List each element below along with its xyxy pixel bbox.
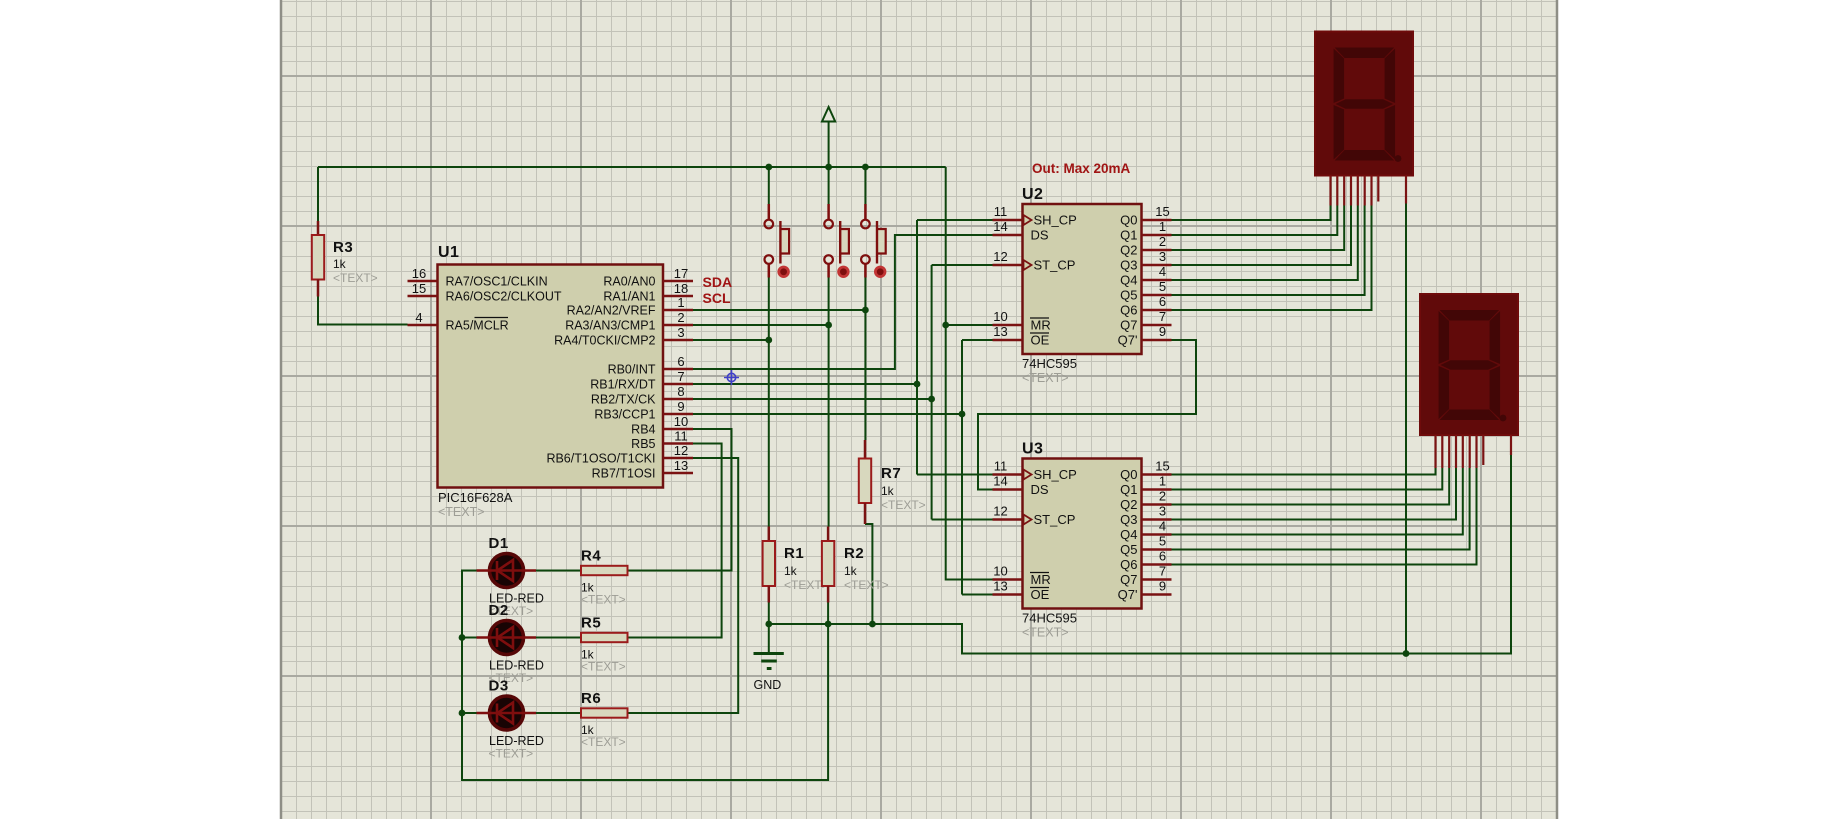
wire RB4 to R4 — [628, 429, 732, 571]
svg-text:Q7': Q7' — [1118, 587, 1138, 602]
svg-text:<TEXT>: <TEXT> — [881, 498, 926, 512]
resistor R2 — [822, 527, 889, 603]
wire R2 top — [827, 526, 830, 528]
pin 10 MR — [993, 564, 1051, 588]
pin 13 OE — [993, 579, 1050, 603]
wire to U2 ST_CP — [932, 264, 993, 266]
svg-text:10: 10 — [993, 309, 1007, 324]
wire button3 top — [864, 167, 866, 204]
svg-text:<TEXT>: <TEXT> — [581, 735, 626, 749]
svg-text:RA0/AN0: RA0/AN0 — [603, 275, 655, 289]
svg-text:9: 9 — [1159, 579, 1166, 594]
junction display1 cathode — [1403, 650, 1410, 657]
wire D2 cathode — [462, 637, 477, 639]
wire R4 to D1 — [536, 570, 581, 572]
wire U3 Q5 to display2 — [1172, 468, 1470, 550]
svg-text:Q1: Q1 — [1120, 482, 1137, 497]
wire U2 Q0 to display1 — [1172, 206, 1331, 221]
svg-text:RA2/AN2/VREF: RA2/AN2/VREF — [567, 304, 656, 318]
resistor R4 — [581, 548, 628, 607]
wire U3 Q2 to display2 — [1172, 468, 1450, 505]
pin seg 6 — [1370, 176, 1372, 206]
wire R7 bottom jog — [865, 524, 872, 624]
svg-text:9: 9 — [677, 399, 684, 414]
resistor R3 — [312, 221, 378, 297]
pin 14 DS — [993, 474, 1049, 498]
junction RA4-btn1 — [765, 337, 772, 344]
pin 1 Q1 — [1120, 219, 1171, 243]
svg-text:OE: OE — [1031, 333, 1050, 348]
svg-text:R2: R2 — [844, 545, 864, 562]
pin 2 Q2 — [1120, 234, 1171, 258]
svg-text:DS: DS — [1031, 482, 1049, 497]
pin seg 0 — [1329, 176, 1331, 206]
svg-text:D3: D3 — [489, 678, 509, 695]
pin common — [1405, 176, 1407, 204]
wire D3 cathode — [462, 712, 477, 714]
svg-text:RA5/MCLR: RA5/MCLR — [446, 319, 509, 333]
push button SW2 — [824, 204, 849, 278]
wire net GND rail — [765, 204, 1511, 657]
wire U2 Q3 to display1 — [1172, 206, 1352, 266]
ground symbol GND — [754, 654, 784, 693]
LED D1 — [477, 535, 544, 618]
svg-text:7: 7 — [1159, 564, 1166, 579]
pin 9 RB3/CCP1 — [594, 399, 693, 422]
svg-text:16: 16 — [412, 266, 426, 281]
wire U2 Q4 to display1 — [1172, 206, 1358, 281]
svg-text:MR: MR — [1031, 572, 1051, 587]
wire RB0 to U2 DS — [693, 235, 993, 369]
pin 2 Q2 — [1120, 489, 1171, 513]
svg-text:GND: GND — [754, 678, 782, 692]
svg-text:Q2: Q2 — [1120, 243, 1137, 258]
svg-text:Q7: Q7 — [1120, 318, 1137, 333]
svg-text:4: 4 — [1159, 519, 1166, 534]
svg-text:RA1/AN1: RA1/AN1 — [603, 290, 655, 304]
svg-text:9: 9 — [1159, 324, 1166, 339]
pin 4 Q4 — [1120, 519, 1171, 543]
wire U3 Q0 to display2 — [1172, 468, 1436, 475]
svg-text:1k: 1k — [881, 484, 895, 498]
svg-text:<TEXT>: <TEXT> — [438, 505, 485, 519]
svg-text:17: 17 — [674, 266, 688, 281]
push button SW1 — [765, 204, 790, 278]
wire net BTN1/RA4/R1 — [693, 278, 772, 527]
junction VCC-U2-MR — [942, 322, 949, 329]
svg-text:RB4: RB4 — [631, 423, 655, 437]
svg-text:Q5: Q5 — [1120, 288, 1137, 303]
wire to U2 OE — [962, 339, 993, 341]
wire RA4 row — [693, 339, 769, 341]
wire U3 Q3 to display2 — [1172, 468, 1457, 520]
pin 11 RB5 — [631, 429, 693, 452]
wire net RB1/SH_CP — [693, 220, 993, 475]
pin 8 RB2/TX/CK — [591, 384, 693, 407]
7-segment display DS1 — [1315, 32, 1413, 206]
svg-text:12: 12 — [993, 504, 1007, 519]
wire U2 Q6 to display1 — [1172, 206, 1372, 311]
wire U3 Q4 to display2 — [1172, 468, 1463, 535]
junction R7-GND — [869, 621, 876, 628]
svg-text:12: 12 — [674, 443, 688, 458]
wire button2 top — [828, 167, 830, 204]
svg-text:14: 14 — [993, 219, 1007, 234]
wire U2 Q1 to display1 — [1172, 206, 1338, 236]
wire R6 to D3 — [536, 712, 581, 714]
power symbol VCC arrow — [822, 107, 835, 122]
svg-text:OE: OE — [1031, 587, 1050, 602]
svg-text:<TEXT>: <TEXT> — [581, 660, 626, 674]
wire RB5 to R5 — [628, 444, 722, 638]
pin 2 RA3/AN3/CMP1 — [565, 310, 693, 333]
pin 6 Q6 — [1120, 294, 1171, 318]
svg-text:4: 4 — [415, 310, 422, 325]
svg-text:Q2: Q2 — [1120, 497, 1137, 512]
svg-text:13: 13 — [993, 324, 1007, 339]
svg-text:2: 2 — [677, 310, 684, 325]
pin 9 Q7' — [1118, 579, 1172, 603]
cursor crosshair marker — [724, 370, 739, 385]
svg-text:RB3/CCP1: RB3/CCP1 — [594, 408, 655, 422]
svg-text:6: 6 — [1159, 549, 1166, 564]
svg-text:18: 18 — [674, 281, 688, 296]
wire VCC to U2 MR vertical — [946, 167, 993, 580]
svg-text:U2: U2 — [1022, 186, 1043, 203]
wire U3 Q1 to display2 — [1172, 468, 1443, 490]
junction VCC-button2 — [825, 164, 832, 171]
pin 11 SH_CP — [993, 459, 1077, 483]
pin 17 RA0/AN0 — [603, 266, 693, 289]
svg-text:1k: 1k — [844, 564, 858, 578]
wire R2 bottom — [827, 603, 829, 625]
pin 7 RB1/RX/DT — [590, 369, 693, 392]
svg-text:12: 12 — [993, 249, 1007, 264]
junction R2-GND — [825, 621, 832, 628]
svg-text:14: 14 — [993, 474, 1007, 489]
svg-text:10: 10 — [993, 564, 1007, 579]
pin seg 2 — [1448, 435, 1450, 468]
svg-text:RA6/OSC2/CLKOUT: RA6/OSC2/CLKOUT — [446, 290, 562, 304]
IC U1 PIC16F628A — [408, 244, 694, 519]
wire to U3 ST_CP — [932, 519, 993, 521]
svg-text:SH_CP: SH_CP — [1034, 213, 1077, 228]
svg-text:11: 11 — [994, 204, 1008, 219]
svg-text:ST_CP: ST_CP — [1034, 258, 1076, 273]
pin 12 RB6/T1OSO/T1CKI — [546, 443, 693, 466]
junction VCC-button3 — [862, 164, 869, 171]
svg-text:7: 7 — [677, 369, 684, 384]
pin seg 3 — [1350, 176, 1352, 206]
pin 9 Q7' — [1118, 324, 1172, 348]
LED D2 — [477, 602, 544, 685]
svg-text:Q0: Q0 — [1120, 467, 1137, 482]
svg-text:RB0/INT: RB0/INT — [608, 363, 656, 377]
wire net BTN3/RA2/R7 — [693, 278, 869, 441]
wire net BTN2/RA3/R2 — [693, 278, 832, 527]
pin 5 Q5 — [1120, 279, 1171, 303]
wire U2 Q2 to display1 — [1172, 206, 1345, 251]
IC U2 74HC595 — [993, 186, 1172, 385]
wire RA2 row — [693, 309, 865, 311]
junction D3 cathode — [459, 710, 466, 717]
junction VCC-button1 — [765, 164, 772, 171]
svg-text:PIC16F628A: PIC16F628A — [438, 490, 513, 505]
pin 5 Q5 — [1120, 534, 1171, 558]
pin 15 Q0 — [1120, 459, 1171, 483]
wire net RB2/ST_CP — [693, 265, 993, 520]
svg-text:6: 6 — [1159, 294, 1166, 309]
svg-text:D1: D1 — [489, 535, 509, 552]
svg-text:Q1: Q1 — [1120, 228, 1137, 243]
svg-text:RB1/RX/DT: RB1/RX/DT — [590, 378, 656, 392]
svg-text:SDA: SDA — [703, 274, 733, 290]
svg-text:DS: DS — [1031, 228, 1049, 243]
svg-text:Q3: Q3 — [1120, 512, 1137, 527]
svg-text:8: 8 — [677, 384, 684, 399]
pin 6 Q6 — [1120, 549, 1171, 573]
resistor R7 — [859, 440, 926, 524]
svg-text:1k: 1k — [333, 257, 347, 271]
svg-text:<TEXT>: <TEXT> — [333, 271, 378, 285]
pin 14 DS — [993, 219, 1049, 243]
svg-text:74HC595: 74HC595 — [1022, 611, 1077, 626]
pin 13 OE — [993, 324, 1050, 348]
svg-text:1: 1 — [1159, 474, 1166, 489]
svg-text:2: 2 — [1159, 234, 1166, 249]
svg-text:R7: R7 — [881, 465, 901, 482]
svg-text:SCL: SCL — [703, 290, 731, 306]
svg-text:D2: D2 — [489, 602, 509, 619]
svg-text:3: 3 — [1159, 504, 1166, 519]
svg-text:7: 7 — [1159, 309, 1166, 324]
svg-text:Q6: Q6 — [1120, 303, 1137, 318]
svg-text:Out: Max 20mA: Out: Max 20mA — [1032, 161, 1131, 176]
pin 18 RA1/AN1 — [603, 281, 693, 304]
svg-text:<TEXT>: <TEXT> — [844, 578, 889, 592]
wire GND symbol drop — [768, 624, 770, 653]
wire to U3 OE — [962, 594, 993, 596]
pin 7 Q7 — [1120, 564, 1171, 588]
junction RB2 — [928, 396, 935, 403]
wire to U3 SH_CP — [917, 474, 993, 476]
resistor R6 — [581, 690, 628, 749]
svg-text:RA7/OSC1/CLKIN: RA7/OSC1/CLKIN — [446, 275, 548, 289]
svg-text:74HC595: 74HC595 — [1022, 356, 1077, 371]
svg-text:RB5: RB5 — [631, 437, 655, 451]
pin seg 5 — [1364, 176, 1366, 206]
pin 6 RB0/INT — [608, 354, 693, 377]
wire U2 MR branch — [946, 324, 993, 326]
svg-text:R6: R6 — [581, 690, 601, 707]
pin seg 0 — [1434, 435, 1436, 468]
svg-text:6: 6 — [677, 354, 684, 369]
wire U3 Q6 to display2 — [1172, 468, 1477, 565]
junction R1-GND — [765, 621, 772, 628]
LED D3 — [477, 678, 544, 761]
svg-text:2: 2 — [1159, 489, 1166, 504]
svg-text:ST_CP: ST_CP — [1034, 512, 1076, 527]
wire display1 cathode vertical — [1405, 204, 1407, 654]
svg-text:SH_CP: SH_CP — [1034, 467, 1077, 482]
svg-text:<TEXT>: <TEXT> — [1022, 626, 1069, 640]
pin 16 RA7/OSC1/CLKIN — [408, 266, 548, 289]
pin seg 3 — [1455, 435, 1457, 468]
svg-text:U1: U1 — [438, 244, 459, 261]
svg-text:<TEXT>: <TEXT> — [1022, 371, 1069, 385]
svg-text:R1: R1 — [784, 545, 804, 562]
wire R3 top to VCC — [317, 167, 319, 221]
wire power arrow drop — [828, 121, 830, 167]
junction RA2-btn3 — [862, 307, 869, 314]
pin common — [1510, 435, 1512, 455]
wire RA3 row — [693, 324, 829, 326]
svg-text:11: 11 — [994, 459, 1008, 474]
svg-text:Q7: Q7 — [1120, 572, 1137, 587]
svg-text:15: 15 — [1155, 459, 1169, 474]
pin 12 ST_CP — [993, 249, 1076, 273]
svg-text:10: 10 — [674, 414, 688, 429]
svg-text:Q6: Q6 — [1120, 557, 1137, 572]
svg-text:3: 3 — [1159, 249, 1166, 264]
svg-text:RB6/T1OSO/T1CKI: RB6/T1OSO/T1CKI — [546, 452, 655, 466]
pin 4 RA5/MCLR — [408, 310, 509, 333]
pin 11 SH_CP — [993, 204, 1077, 228]
svg-text:<TEXT>: <TEXT> — [581, 593, 626, 607]
svg-text:5: 5 — [1159, 279, 1166, 294]
IC U3 74HC595 — [993, 441, 1172, 640]
svg-text:Q4: Q4 — [1120, 527, 1137, 542]
svg-text:1k: 1k — [784, 564, 798, 578]
svg-text:Q3: Q3 — [1120, 258, 1137, 273]
svg-text:Q7': Q7' — [1118, 333, 1138, 348]
pin seg 1 — [1441, 435, 1443, 468]
pin 1 Q1 — [1120, 474, 1171, 498]
wire net RB3/OE — [693, 340, 993, 595]
junction D2 cathode — [459, 634, 466, 641]
svg-text:Q0: Q0 — [1120, 213, 1137, 228]
svg-text:RA4/T0CKI/CMP2: RA4/T0CKI/CMP2 — [554, 334, 655, 348]
svg-text:U3: U3 — [1022, 441, 1043, 458]
pin 1 RA2/AN2/VREF — [567, 295, 693, 318]
resistor R5 — [581, 615, 628, 674]
svg-text:RB7/T1OSI: RB7/T1OSI — [592, 467, 656, 481]
pin 12 ST_CP — [993, 504, 1076, 528]
svg-text:1: 1 — [1159, 219, 1166, 234]
pin seg 4 — [1357, 176, 1359, 206]
svg-text:13: 13 — [993, 579, 1007, 594]
svg-text:15: 15 — [412, 281, 426, 296]
pin seg 1 — [1336, 176, 1338, 206]
wire U2 Q5 to display1 — [1172, 206, 1365, 296]
junction RB1 — [914, 381, 921, 388]
wire VCC power rail — [318, 121, 993, 580]
svg-text:5: 5 — [1159, 534, 1166, 549]
svg-text:<TEXT>: <TEXT> — [489, 747, 534, 761]
junction RA3-btn2 — [825, 322, 832, 329]
svg-text:15: 15 — [1155, 204, 1169, 219]
pin seg 4 — [1462, 435, 1464, 468]
wire R1 top — [768, 526, 770, 529]
svg-text:1: 1 — [677, 295, 684, 310]
junction RB3 — [959, 411, 966, 418]
wire U2 Q7' cascade to U3 DS — [978, 340, 1196, 490]
pin 3 Q3 — [1120, 249, 1171, 273]
svg-text:R5: R5 — [581, 615, 601, 632]
svg-text:R3: R3 — [333, 239, 353, 256]
wire RB6 to R6 — [628, 458, 739, 713]
pin 7 Q7 — [1120, 309, 1171, 333]
pin 3 Q3 — [1120, 504, 1171, 528]
wire R3 bottom to U1 RA5 — [318, 297, 408, 325]
pin 10 RB4 — [631, 414, 693, 437]
svg-text:MR: MR — [1031, 318, 1051, 333]
wire net LED cathodes — [459, 571, 828, 781]
svg-text:3: 3 — [677, 325, 684, 340]
svg-text:Q5: Q5 — [1120, 542, 1137, 557]
svg-text:4: 4 — [1159, 264, 1166, 279]
pin seg 7 — [1482, 435, 1484, 465]
pin 10 MR — [993, 309, 1051, 333]
svg-text:11: 11 — [674, 429, 688, 444]
pin 4 Q4 — [1120, 264, 1171, 288]
wire to U2 SH_CP — [917, 219, 993, 221]
pin 13 RB7/T1OSI — [592, 458, 693, 481]
resistor R1 — [763, 527, 829, 603]
wire button1 top — [768, 167, 770, 204]
svg-text:Q4: Q4 — [1120, 273, 1137, 288]
pin 3 RA4/T0CKI/CMP2 — [554, 325, 693, 348]
svg-text:RA3/AN3/CMP1: RA3/AN3/CMP1 — [565, 319, 655, 333]
svg-text:RB2/TX/CK: RB2/TX/CK — [591, 393, 656, 407]
push button SW3 — [861, 204, 886, 278]
svg-text:R4: R4 — [581, 548, 601, 565]
pin seg 2 — [1343, 176, 1345, 206]
svg-text:13: 13 — [674, 458, 688, 473]
grid background — [281, 0, 1557, 819]
pin 15 Q0 — [1120, 204, 1171, 228]
pin seg 7 — [1377, 176, 1379, 202]
pin seg 6 — [1475, 435, 1477, 468]
pin 15 RA6/OSC2/CLKOUT — [408, 281, 562, 304]
7-segment display DS2 — [1420, 294, 1518, 468]
pin seg 5 — [1469, 435, 1471, 468]
wire R5 to D2 — [536, 637, 581, 639]
